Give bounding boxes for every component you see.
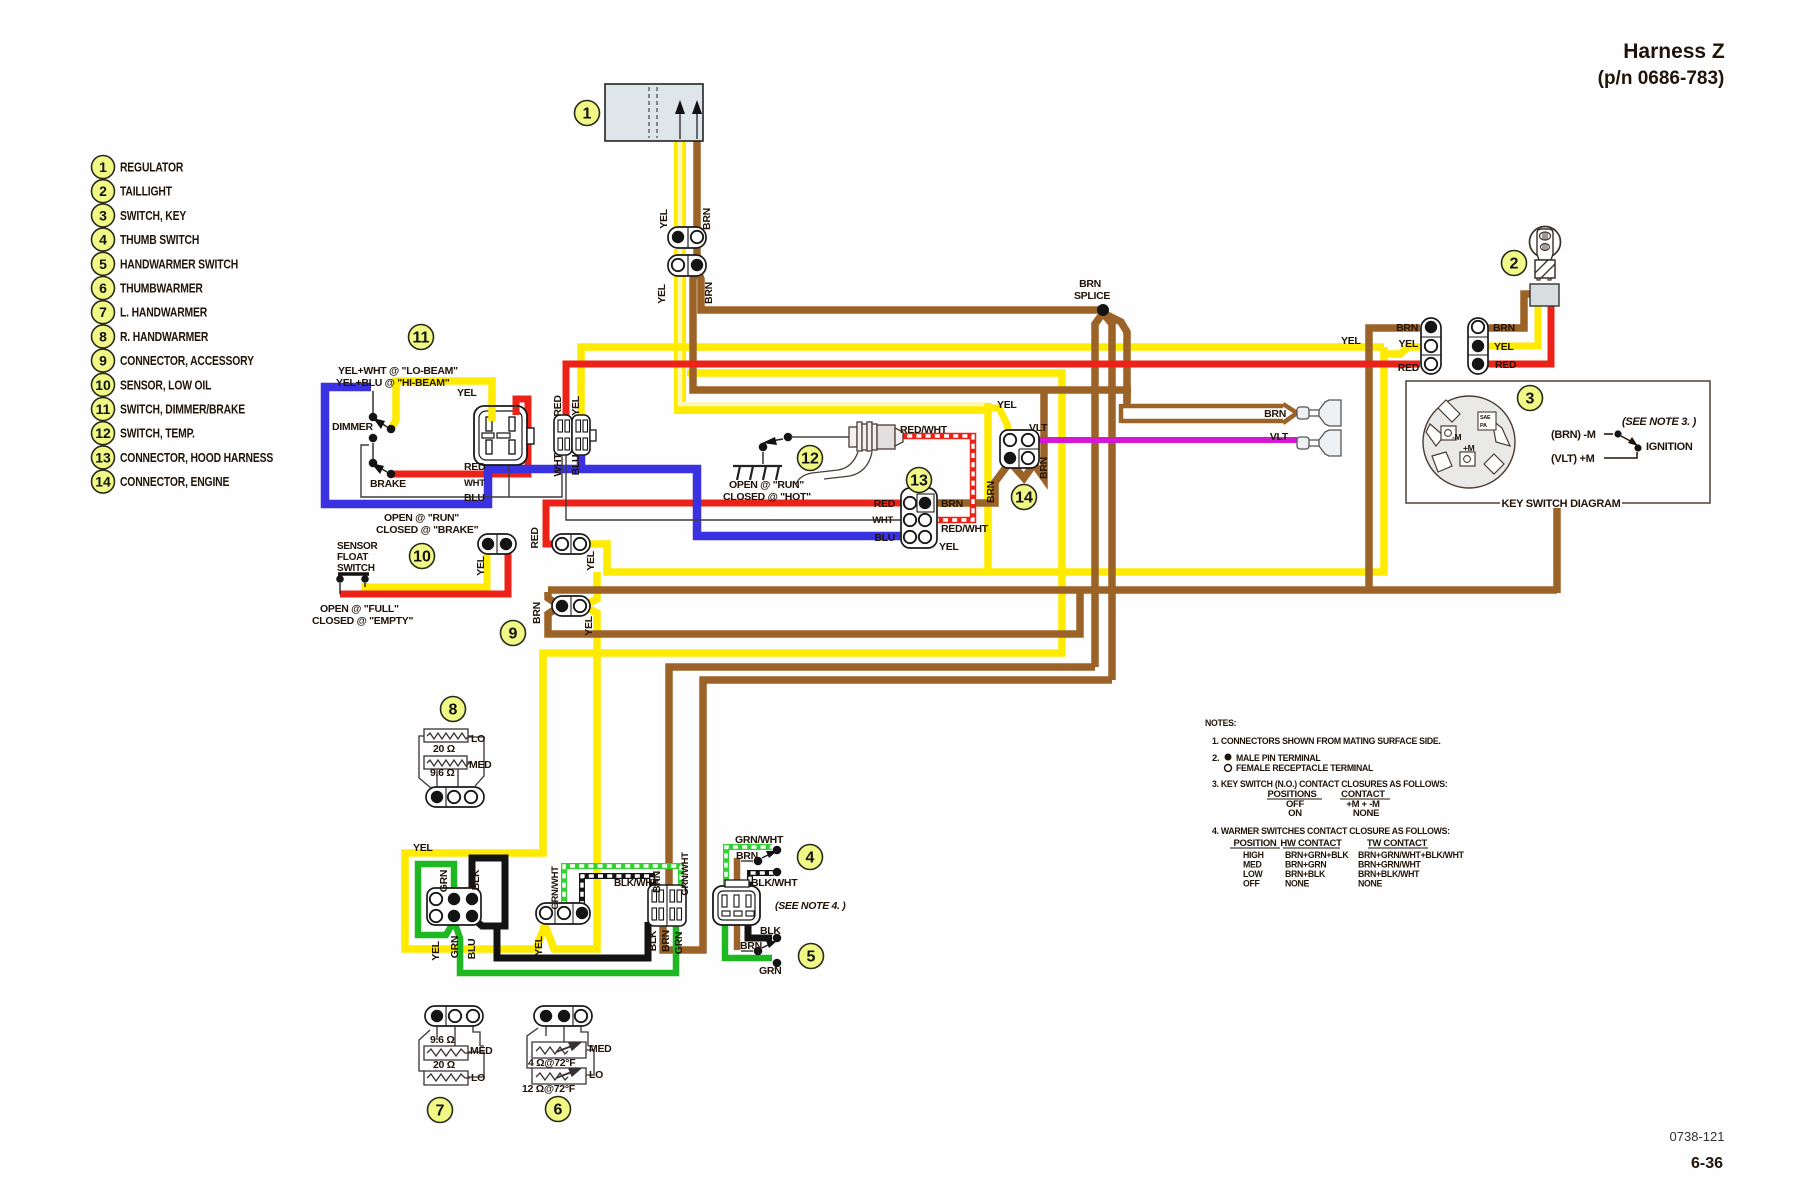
svg-text:9.6 Ω: 9.6 Ω	[430, 1034, 454, 1046]
svg-text:YEL: YEL	[939, 541, 959, 553]
svg-text:BLK: BLK	[647, 930, 659, 951]
wire BRN splice branch middle x1112 down to y680	[1103, 313, 1112, 680]
svg-text:FLOAT: FLOAT	[337, 552, 368, 563]
node number 14	[1012, 485, 1037, 510]
wire GRN loop at thumb connector to 6pin conn	[418, 864, 676, 973]
svg-text:R. HANDWARMER: R. HANDWARMER	[120, 331, 209, 344]
node number 12	[798, 446, 823, 471]
svg-text:YEL: YEL	[475, 555, 487, 575]
svg-text:6: 6	[554, 1102, 563, 1119]
svg-text:BRN: BRN	[660, 930, 672, 952]
svg-text:11: 11	[96, 401, 111, 417]
svg-text:BLK: BLK	[470, 869, 482, 890]
svg-text:GRN: GRN	[449, 936, 461, 958]
switch 5 handwarmer contacts	[773, 934, 782, 943]
legend item 11	[92, 398, 115, 421]
svg-text:-M: -M	[1452, 432, 1462, 442]
wire YEL branch y373 east, down x1062, west y653, down x543, bottom loop	[405, 373, 1062, 949]
svg-text:12: 12	[801, 451, 819, 468]
svg-text:RED: RED	[529, 527, 541, 549]
wire YEL x988 down to y573	[984, 403, 992, 573]
svg-text:TAILLIGHT: TAILLIGHT	[120, 186, 172, 199]
svg-text:NONE: NONE	[1358, 878, 1382, 888]
svg-text:0738-121: 0738-121	[1670, 1129, 1725, 1144]
svg-text:YEL: YEL	[658, 208, 670, 228]
svg-text:ON: ON	[1288, 808, 1302, 819]
svg-text:SWITCH, TEMP.: SWITCH, TEMP.	[120, 428, 195, 441]
wire BLK/WHT switch4 contact	[750, 873, 774, 886]
svg-text:SWITCH: SWITCH	[337, 563, 375, 574]
svg-text:2.: 2.	[1212, 753, 1219, 764]
svg-text:WHT: WHT	[872, 515, 893, 526]
wire GRN/WHT to thumb switch 4	[726, 847, 772, 886]
svg-text:7: 7	[99, 304, 107, 320]
svg-text:BRN: BRN	[1038, 457, 1050, 479]
svg-text:NONE: NONE	[1353, 808, 1379, 819]
legend item 14	[92, 470, 115, 493]
svg-text:20 Ω: 20 Ω	[433, 1059, 455, 1071]
svg-text:+M: +M	[1463, 443, 1475, 453]
wire YEL into connector 14 pin	[986, 408, 1010, 436]
svg-text:BRN: BRN	[1264, 408, 1286, 420]
svg-text:(VLT) +M: (VLT) +M	[1551, 453, 1595, 465]
connector 6pin thumb harness	[427, 888, 481, 925]
svg-text:YEL: YEL	[997, 399, 1017, 411]
svg-text:GRN: GRN	[673, 932, 685, 954]
wire RED taillight socket to connector	[1487, 303, 1551, 364]
wire BRN y680 west down x703 to 6pin connector bottom	[663, 680, 1112, 950]
wire GRN switch5	[725, 921, 772, 958]
svg-text:RED/WHT: RED/WHT	[900, 424, 948, 436]
svg-text:YEL: YEL	[656, 283, 668, 303]
svg-text:SAE: SAE	[1480, 415, 1491, 421]
svg-text:GRN/WHT: GRN/WHT	[680, 852, 691, 896]
svg-text:FEMALE RECEPTACLE TERMINAL: FEMALE RECEPTACLE TERMINAL	[1236, 763, 1374, 773]
svg-text:SWITCH, KEY: SWITCH, KEY	[120, 210, 187, 223]
svg-text:8: 8	[449, 702, 458, 719]
wire BRN main run y590	[548, 586, 1557, 594]
wire BRN splice branch left x1095 down to y667	[1095, 313, 1103, 667]
svg-text:20 Ω: 20 Ω	[433, 743, 455, 755]
legend item 4	[92, 228, 115, 251]
node number 7	[428, 1098, 453, 1123]
legend item 12	[92, 422, 115, 445]
svg-text:BLU: BLU	[466, 939, 478, 960]
svg-text:14: 14	[95, 474, 111, 490]
connector plug switches 4 5	[713, 886, 760, 925]
svg-text:10: 10	[413, 549, 431, 566]
svg-text:RED: RED	[874, 498, 896, 510]
connector switch 11 harness 2x3	[554, 415, 572, 455]
wire YEL visible entering plug	[488, 407, 496, 421]
taillight bulb 2	[1530, 227, 1561, 258]
node regulator connector pair lower	[668, 255, 706, 276]
wire BRN connector13 to connector14 M loop riser to y390	[928, 390, 1044, 503]
node number 8	[441, 697, 466, 722]
svg-text:3. KEY SWITCH (N.O.) CONTACT: 3. KEY SWITCH (N.O.) CONTACT CLOSURES AS…	[1212, 779, 1448, 789]
svg-text:THUMBWARMER: THUMBWARMER	[120, 283, 204, 296]
wire YEL from dimmer conn pin up to y347 east	[581, 347, 1384, 416]
connector oval 3pin thumbwarmer harness	[536, 903, 590, 924]
svg-text:YEL: YEL	[1398, 338, 1418, 350]
wire RED long run y364 to taillight conn	[566, 364, 1420, 416]
svg-text:GRN/WHT: GRN/WHT	[735, 834, 784, 846]
node BRN splice	[1097, 304, 1109, 316]
svg-text:VLT: VLT	[1270, 431, 1289, 443]
wire RED y502 run conn10 to connector13	[546, 503, 906, 544]
svg-text:(BRN) -M: (BRN) -M	[1551, 429, 1596, 441]
legend item 5	[92, 252, 115, 275]
svg-text:BRN: BRN	[1493, 322, 1515, 334]
svg-text:YEL: YEL	[457, 387, 477, 399]
svg-text:SPLICE: SPLICE	[1074, 290, 1110, 302]
node number 1	[575, 101, 600, 126]
svg-text:L. HANDWARMER: L. HANDWARMER	[120, 307, 208, 320]
svg-text:13: 13	[95, 449, 111, 465]
legend item 9	[92, 349, 115, 372]
node number 9	[501, 621, 526, 646]
svg-text:Harness Z: Harness Z	[1623, 40, 1725, 63]
wire RED visible entering plug	[513, 407, 520, 415]
svg-text:GRN: GRN	[759, 965, 781, 977]
wire WHT stub from plug bottom	[508, 466, 510, 497]
svg-text:LO: LO	[589, 1069, 603, 1081]
connector taillight lamp side 3pin	[1468, 318, 1488, 374]
svg-text:THUMB SWITCH: THUMB SWITCH	[120, 234, 199, 247]
connector 8	[426, 787, 484, 807]
svg-text:SWITCH, DIMMER/BRAKE: SWITCH, DIMMER/BRAKE	[120, 404, 245, 417]
svg-text:OPEN @ "RUN": OPEN @ "RUN"	[729, 479, 804, 491]
svg-text:12: 12	[95, 425, 111, 441]
node number 6	[546, 1097, 571, 1122]
connector taillight harness side 3pin	[1421, 318, 1441, 374]
svg-text:KEY SWITCH DIAGRAM: KEY SWITCH DIAGRAM	[1501, 498, 1620, 510]
wire YEL float switch to connector 10	[365, 551, 487, 587]
switch 11 brake contacts	[369, 459, 378, 468]
svg-text:9.6 Ω: 9.6 Ω	[430, 767, 454, 779]
wire RED/WHT temp sensor to connector13	[898, 436, 973, 520]
svg-text:YEL: YEL	[430, 940, 442, 960]
svg-text:RED: RED	[464, 461, 486, 473]
svg-text:YEL+BLU @ "HI-BEAM": YEL+BLU @ "HI-BEAM"	[336, 377, 450, 389]
wire WHT thin from connector to dimmer	[361, 445, 562, 497]
svg-text:IGNITION: IGNITION	[1646, 441, 1693, 453]
wire BLK loop at thumb connector	[472, 858, 505, 926]
svg-text:TW CONTACT: TW CONTACT	[1367, 838, 1428, 849]
wire BRN regulator box to first connector	[693, 140, 701, 228]
svg-text:5: 5	[807, 949, 816, 966]
wire BRN taillight socket to connector	[1487, 294, 1532, 328]
svg-text:POSITION: POSITION	[1234, 838, 1277, 849]
svg-text:(p/n 0686-783): (p/n 0686-783)	[1598, 68, 1725, 89]
legend item 6	[92, 277, 115, 300]
key switch diagram box 3	[1406, 381, 1710, 503]
wire BLK switch5 contact	[748, 921, 772, 938]
wire BLK/WHT oval conn to 6pin conn	[582, 876, 652, 906]
resistor component 8 R handwarmer	[419, 729, 484, 788]
svg-text:14: 14	[1015, 490, 1033, 507]
svg-text:BRAKE: BRAKE	[370, 478, 406, 490]
svg-text:YEL: YEL	[1494, 341, 1514, 353]
svg-text:(SEE NOTE 4. ): (SEE NOTE 4. )	[775, 900, 846, 912]
resistor component 6 thumbwarmer	[534, 1006, 592, 1026]
wire RED float switch return	[340, 551, 508, 594]
connector 6pin rect warmers	[648, 885, 686, 926]
legend item 7	[92, 301, 115, 324]
svg-text:LO: LO	[471, 1072, 485, 1084]
wire BRN y667 west then down to 6pin connector top	[669, 667, 1095, 886]
svg-text:10: 10	[95, 377, 111, 393]
svg-text:YEL: YEL	[570, 395, 582, 415]
switch 4 thumb contacts	[773, 846, 782, 855]
svg-text:BLK: BLK	[760, 925, 781, 937]
svg-text:CONNECTOR, HOOD HARNESS: CONNECTOR, HOOD HARNESS	[120, 452, 274, 465]
svg-text:MED: MED	[469, 759, 492, 771]
svg-text:BRN: BRN	[703, 282, 715, 304]
svg-text:11: 11	[413, 330, 430, 347]
sensor 12 body	[849, 422, 903, 451]
svg-text:YEL: YEL	[1341, 335, 1361, 347]
wire BRN riser x1369 to taillight 3pin connector	[1369, 328, 1420, 592]
svg-text:RED: RED	[1398, 362, 1420, 374]
svg-text:MED: MED	[589, 1043, 612, 1055]
svg-text:CLOSED @ "BRAKE": CLOSED @ "BRAKE"	[376, 524, 479, 536]
svg-text:BLK/WHT: BLK/WHT	[751, 877, 798, 889]
svg-text:YEL+WHT @ "LO-BEAM": YEL+WHT @ "LO-BEAM"	[338, 365, 458, 377]
wire VLT connector14 to spade terminal	[1036, 437, 1297, 443]
node number 4	[798, 845, 823, 870]
svg-text:YEL: YEL	[583, 615, 595, 635]
wire WHT thin long run to connector13	[566, 453, 906, 520]
svg-text:BRN: BRN	[701, 208, 713, 230]
svg-text:BRN: BRN	[736, 850, 758, 862]
connector 14 engine	[1000, 430, 1039, 468]
svg-text:YEL: YEL	[413, 842, 433, 854]
resistor component 7 L handwarmer	[425, 1006, 483, 1026]
wire YEL long run y573 from conn10 to x1384 up to y347 stub to taillight conn	[589, 347, 1384, 572]
svg-text:1: 1	[99, 159, 107, 175]
node number 13	[907, 468, 932, 493]
svg-text:6: 6	[99, 280, 107, 296]
wire GRN/WHT oval conn to 6pin conn	[564, 866, 681, 906]
wire YEL regulator band down and east toward connector 14	[674, 139, 686, 228]
svg-text:12 Ω@72°F: 12 Ω@72°F	[522, 1083, 576, 1095]
svg-text:3: 3	[99, 207, 107, 223]
switch 11 dimmer contacts	[369, 413, 378, 422]
svg-text:OFF: OFF	[1243, 878, 1260, 888]
svg-text:LO: LO	[471, 733, 485, 745]
svg-text:1. CONNECTORS SHOWN FROM MATI: 1. CONNECTORS SHOWN FROM MATING SURFACE …	[1212, 736, 1441, 746]
svg-text:SENSOR, LOW OIL: SENSOR, LOW OIL	[120, 380, 211, 393]
svg-text:7: 7	[436, 1103, 445, 1120]
svg-text:BRN: BRN	[941, 498, 963, 510]
svg-text:HW CONTACT: HW CONTACT	[1280, 838, 1342, 849]
node number 5	[799, 944, 824, 969]
svg-text:CLOSED @ "HOT": CLOSED @ "HOT"	[723, 491, 811, 503]
svg-text:2: 2	[1510, 256, 1519, 273]
svg-text:1: 1	[583, 106, 592, 123]
connector 10 pair female	[552, 534, 590, 554]
svg-text:NOTES:: NOTES:	[1205, 718, 1237, 728]
svg-text:MED: MED	[470, 1045, 493, 1057]
svg-text:BLU: BLU	[464, 492, 485, 504]
svg-text:WHT: WHT	[464, 478, 485, 489]
svg-text:2: 2	[99, 183, 107, 199]
svg-text:4: 4	[806, 850, 815, 867]
svg-text:BLU: BLU	[874, 532, 895, 544]
svg-text:RED: RED	[1495, 359, 1517, 371]
svg-text:MALE PIN TERMINAL: MALE PIN TERMINAL	[1236, 753, 1321, 763]
legend item 1	[92, 156, 115, 179]
svg-text:4. WARMER SWITCHES CONTACT CL: 4. WARMER SWITCHES CONTACT CLOSURE AS FO…	[1212, 826, 1450, 836]
svg-text:9: 9	[509, 626, 518, 643]
svg-text:4 Ω@72°F: 4 Ω@72°F	[528, 1057, 576, 1069]
svg-text:BRN: BRN	[531, 602, 543, 624]
svg-text:YEL: YEL	[585, 550, 597, 570]
wire BLK run to 6pin conn	[497, 922, 648, 958]
svg-text:OPEN @ "FULL": OPEN @ "FULL"	[320, 603, 399, 615]
svg-text:9: 9	[99, 353, 107, 369]
svg-text:CLOSED @ "EMPTY": CLOSED @ "EMPTY"	[312, 615, 413, 627]
wire BRN stub for switches 4 and 5	[734, 858, 741, 950]
wire BRN regulator left leg down x693 east y390 to x1557 down to y590	[693, 268, 1131, 390]
svg-text:SENSOR: SENSOR	[337, 541, 379, 552]
wire YEL dimmer lever to plug	[392, 381, 492, 447]
svg-text:GRN: GRN	[438, 870, 450, 892]
legend item 2	[92, 180, 115, 203]
legend item 8	[92, 325, 115, 348]
svg-text:DIMMER: DIMMER	[332, 421, 373, 433]
svg-text:HANDWARMER SWITCH: HANDWARMER SWITCH	[120, 259, 238, 272]
svg-text:8: 8	[99, 328, 107, 344]
svg-text:REGULATOR: REGULATOR	[120, 162, 184, 175]
svg-text:4: 4	[99, 232, 107, 248]
svg-text:OPEN @ "RUN": OPEN @ "RUN"	[384, 512, 459, 524]
wire BRN key switch stub	[1553, 505, 1561, 593]
wire BRN splice branch right to spade terminal	[1103, 313, 1127, 402]
switch 10 float contacts	[338, 572, 369, 575]
svg-text:6-36: 6-36	[1691, 1155, 1723, 1172]
terminal VLT spade	[1297, 437, 1309, 449]
svg-text:GRN/WHT: GRN/WHT	[550, 866, 561, 910]
connector plug switch 11	[474, 406, 527, 465]
svg-text:NONE: NONE	[1285, 878, 1309, 888]
wire BLU dimmer frame to connector13	[325, 387, 906, 536]
node number 3	[1518, 386, 1543, 411]
regulator box 1	[605, 84, 703, 141]
svg-text:3: 3	[1526, 391, 1535, 408]
svg-text:CONNECTOR, ACCESSORY: CONNECTOR, ACCESSORY	[120, 355, 254, 368]
wire RED brake switch to plug	[392, 399, 528, 474]
svg-text:BLU: BLU	[570, 455, 582, 476]
svg-text:WHT: WHT	[552, 453, 564, 477]
wire BRN regulator right leg to splice	[697, 268, 1100, 310]
wire BLU stub into switch connector	[577, 453, 586, 469]
svg-text:BRN: BRN	[740, 940, 762, 952]
svg-text:CONNECTOR, ENGINE: CONNECTOR, ENGINE	[120, 476, 230, 489]
svg-text:VLT: VLT	[1029, 422, 1048, 434]
svg-text:BRN: BRN	[1079, 278, 1101, 290]
node number 11	[409, 325, 434, 350]
notes block	[1205, 718, 1237, 728]
node number 2	[1502, 251, 1527, 276]
svg-text:5: 5	[99, 256, 107, 272]
connector 13 hood harness	[901, 488, 937, 548]
wire YEL taillight socket to connector	[1487, 303, 1538, 346]
svg-text:RED: RED	[552, 395, 564, 417]
svg-text:RED/WHT: RED/WHT	[941, 523, 989, 535]
connector 9 accessory	[552, 596, 590, 616]
svg-text:13: 13	[910, 473, 928, 490]
svg-text:YEL: YEL	[533, 935, 545, 955]
connector 10 pair male	[478, 534, 516, 554]
legend item 3	[92, 204, 115, 227]
taillight socket box	[1530, 284, 1559, 306]
legend item 10	[92, 373, 115, 396]
svg-text:BRN: BRN	[1396, 322, 1418, 334]
svg-text:(SEE NOTE 3. ): (SEE NOTE 3. )	[1622, 416, 1697, 428]
sensor 12 temp switch	[784, 433, 793, 442]
wire BRN connector9 loop with chevron	[548, 592, 1080, 634]
node regulator connector pair upper	[668, 227, 706, 248]
legend item 13	[92, 446, 115, 469]
svg-text:BRN: BRN	[985, 481, 997, 503]
terminal BRN spade	[1297, 407, 1309, 419]
node number 10	[410, 544, 435, 569]
svg-text:BRN: BRN	[651, 871, 663, 893]
svg-text:PA: PA	[1480, 423, 1487, 429]
